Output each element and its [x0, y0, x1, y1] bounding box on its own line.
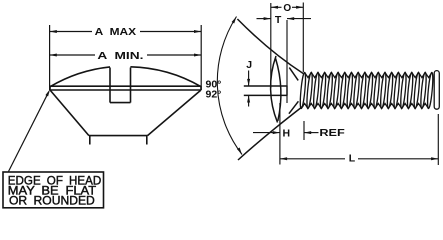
head crown arc right segment	[130, 67, 201, 87]
angle dimension arc	[217, 17, 242, 155]
note box	[3, 172, 104, 208]
arrowhead O left	[271, 6, 278, 9]
arrowhead A MAX right	[194, 30, 201, 33]
extension line E3 bearing plane	[302, 3, 304, 73]
cone right side	[148, 90, 202, 136]
svg-text:H: H	[283, 127, 291, 139]
svg-text:O: O	[283, 3, 291, 14]
cone left side	[50, 90, 89, 136]
threads	[299, 72, 434, 109]
H right lead	[304, 132, 319, 134]
slot upper wall	[244, 85, 287, 87]
leader arrowhead	[45, 89, 50, 96]
head crown arc (side)	[271, 56, 278, 123]
svg-text:L: L	[349, 153, 356, 165]
arrowhead O right	[296, 6, 303, 9]
arrowhead A MIN left	[50, 54, 57, 57]
extension line E1 crown apex	[270, 3, 272, 88]
cone lower outline / angle leg	[238, 106, 303, 160]
dimension line A MAX	[50, 31, 92, 33]
arrowhead H right (pointing left)	[304, 131, 311, 134]
arrowhead J top (pointing down)	[247, 79, 250, 86]
slot runout line lower	[289, 101, 299, 113]
cone upper outline / angle leg	[237, 19, 303, 74]
arrowhead T right (outside pointing left)	[287, 17, 294, 20]
slot far-wall arc	[276, 59, 281, 122]
slot notch left wall	[109, 68, 111, 103]
H left lead	[253, 132, 280, 134]
arrowhead A MAX left	[50, 30, 57, 33]
arrowhead L right	[431, 157, 438, 160]
svg-text:REF: REF	[319, 127, 345, 139]
shank stub left	[89, 136, 91, 145]
rim right end	[200, 86, 202, 90]
svg-text:A MAX: A MAX	[95, 26, 136, 38]
arc arrowhead bottom	[237, 148, 242, 155]
slot notch right wall	[130, 68, 132, 103]
head crown arc left segment	[50, 67, 110, 87]
T right lead	[287, 18, 311, 20]
extension line A right	[200, 25, 202, 90]
svg-text:A MIN.: A MIN.	[97, 50, 143, 62]
arrowhead L left	[280, 157, 287, 160]
arrowhead J bottom (pointing up)	[247, 95, 250, 102]
slot notch floor	[110, 102, 131, 104]
arc arrowhead top	[232, 17, 237, 24]
shank stub right	[146, 136, 148, 145]
svg-text:92°: 92°	[206, 89, 222, 101]
J dimension line lower	[248, 95, 250, 106]
svg-text:OR ROUNDED: OR ROUNDED	[9, 193, 95, 207]
extension line A left	[49, 25, 51, 90]
extension line H right	[303, 121, 305, 140]
svg-text:T: T	[275, 14, 282, 26]
extension line L right	[437, 114, 439, 165]
T left lead	[257, 18, 271, 20]
slot runout line upper	[289, 68, 298, 81]
svg-text:J: J	[246, 59, 252, 71]
arrowhead T left (outside pointing right)	[264, 17, 271, 20]
dimension line O	[271, 6, 282, 8]
slot lower wall	[244, 94, 287, 96]
head rim flat bottom line	[50, 89, 201, 91]
leader line to note box	[9, 92, 49, 172]
extension line slot floor / T right	[286, 20, 288, 86]
head rim flat top line	[50, 85, 201, 87]
extension line H/L left	[279, 103, 281, 165]
screw end cap	[434, 71, 439, 110]
shank shoulder line	[89, 135, 148, 137]
rim left end	[49, 86, 51, 90]
dimension line L	[280, 158, 345, 160]
dimension line A MIN	[50, 54, 95, 56]
arrowhead A MIN right	[194, 54, 201, 57]
arrowhead H left (pointing right)	[273, 131, 280, 134]
slot floor	[286, 86, 288, 96]
J dimension line upper	[248, 71, 250, 87]
